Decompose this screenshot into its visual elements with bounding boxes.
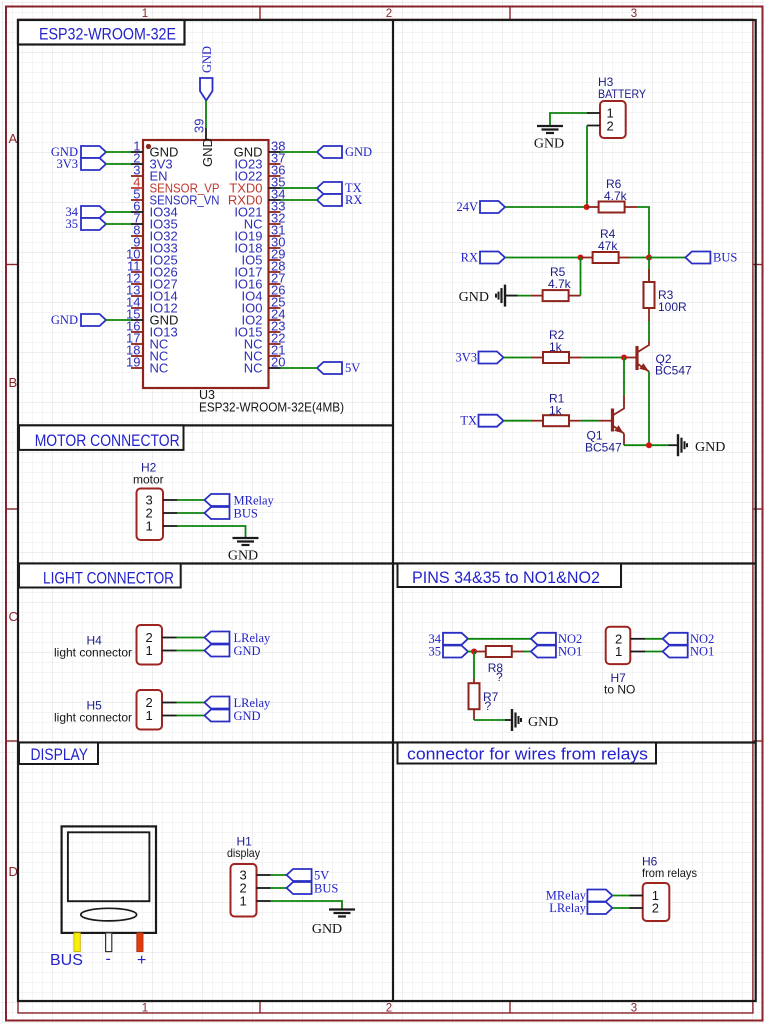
connector H3 BATTERY	[587, 75, 646, 138]
svg-text:GND: GND	[345, 145, 372, 159]
ground GND (battery)	[534, 126, 564, 152]
resistor R2 1k	[531, 328, 581, 363]
net port NO1	[531, 645, 582, 659]
net port NO1 (H7)	[663, 645, 715, 659]
svg-text:1: 1	[146, 643, 153, 658]
ground GND (emitters)	[669, 434, 726, 456]
svg-text:100R: 100R	[658, 300, 687, 314]
ground GND (H2)	[228, 538, 259, 564]
wire 34 to NO2	[468, 638, 531, 640]
svg-text:BUS: BUS	[50, 952, 83, 969]
svg-text:1k: 1k	[549, 404, 563, 418]
junction Q1/Q2 emitters	[646, 442, 652, 448]
power flag GND (top of U3)	[200, 46, 214, 101]
wire H5 pin1 to GND	[177, 715, 205, 717]
net port TX	[460, 414, 503, 428]
section title connector for wires from relays	[398, 743, 657, 764]
junction 24V/H3	[584, 204, 590, 210]
svg-text:1: 1	[146, 708, 153, 723]
wire LRelay to H6 pin2	[612, 907, 629, 909]
svg-text:light connector: light connector	[54, 646, 132, 660]
resistor R5 4.7k	[531, 265, 581, 301]
section title DISPLAY	[19, 743, 98, 765]
svg-text:GND: GND	[51, 313, 78, 327]
svg-text:GND: GND	[234, 644, 261, 658]
svg-text:GND: GND	[200, 46, 214, 73]
section title LIGHT CONNECTOR	[19, 564, 181, 588]
svg-text:2: 2	[652, 901, 659, 916]
wire pin39 to GND flag	[205, 101, 207, 129]
wire pin 38 to GND	[281, 151, 318, 153]
wire H1 pin3 to 5V	[271, 874, 287, 876]
svg-text:+: +	[137, 952, 146, 969]
svg-text:LRelay: LRelay	[234, 696, 272, 710]
svg-text:motor: motor	[133, 473, 164, 487]
connector H6 from relays	[629, 855, 697, 922]
wire MRelay to H6 pin1	[612, 895, 629, 897]
wire Q2 emitter down	[648, 372, 650, 446]
section title MOTOR CONNECTOR	[19, 425, 184, 450]
svg-text:MRelay: MRelay	[234, 494, 275, 508]
svg-text:1: 1	[142, 8, 148, 20]
net port NO2	[531, 632, 582, 646]
svg-text:4.7k: 4.7k	[604, 189, 628, 203]
transistor Q1 BC547	[585, 396, 624, 455]
svg-text:ESP32-WROOM-32E(4MB): ESP32-WROOM-32E(4MB)	[199, 401, 344, 415]
svg-text:to NO: to NO	[604, 683, 635, 697]
wire H5 pin2 to LRelay	[177, 702, 205, 704]
IC U3 ESP32-WROOM-32E(4MB)	[126, 119, 344, 415]
svg-text:GND: GND	[228, 549, 258, 564]
wire H2 pin3 to MRelay	[177, 499, 205, 501]
ground GND (H1)	[312, 910, 355, 938]
svg-text:NC: NC	[244, 361, 263, 376]
svg-text:TX: TX	[460, 414, 477, 428]
svg-text:24V: 24V	[456, 200, 478, 214]
connector H4 light connector	[54, 625, 177, 665]
section title PINS 34&35 to NO1&NO2	[398, 564, 622, 588]
net port 35	[429, 645, 469, 659]
svg-text:display: display	[227, 846, 260, 860]
net port LRelay (H6)	[549, 901, 612, 915]
transistor Q2 BC547	[624, 341, 692, 378]
svg-text:1k: 1k	[549, 340, 563, 354]
wire 3V3 to R2	[504, 357, 532, 359]
svg-text:BUS: BUS	[314, 882, 338, 896]
svg-text:from relays: from relays	[642, 866, 697, 880]
net port 24V	[456, 200, 505, 214]
wire R7 to GND	[474, 719, 512, 721]
net port MRelay (H2)	[205, 494, 275, 508]
svg-text:3: 3	[631, 1003, 637, 1015]
net port 34	[429, 632, 469, 646]
svg-text:BC547: BC547	[655, 364, 692, 378]
svg-text:light connector: light connector	[54, 711, 132, 725]
net port 5V (H1)	[287, 869, 330, 883]
junction 35/R8/R7	[471, 649, 477, 655]
net port 34 (U3 pin 6)	[66, 205, 107, 219]
wire R2 to Q2 base junction	[581, 357, 624, 359]
net port RX (U3 pin 34)	[317, 193, 362, 207]
wire pin 34 to RX	[281, 199, 318, 201]
connector H5 light connector	[54, 690, 177, 730]
svg-text:LRelay: LRelay	[234, 631, 272, 645]
wire RX to R4	[505, 257, 581, 259]
svg-text:RX: RX	[345, 193, 362, 207]
resistor R7 ?	[469, 679, 499, 720]
svg-text:PINS 34&35 to NO1&NO2: PINS 34&35 to NO1&NO2	[412, 568, 600, 587]
resistor R1 1k	[531, 392, 581, 427]
net port GND (H4)	[205, 644, 261, 658]
svg-text:1: 1	[146, 519, 153, 534]
svg-text:-: -	[106, 951, 111, 968]
svg-text:19: 19	[126, 355, 140, 370]
svg-text:BC547: BC547	[585, 441, 622, 455]
wire H1 pin2 to BUS	[271, 887, 287, 889]
svg-text:35: 35	[429, 645, 442, 659]
svg-text:DISPLAY: DISPLAY	[31, 745, 89, 764]
svg-text:?: ?	[485, 699, 492, 713]
svg-text:NO1: NO1	[558, 645, 582, 659]
wire H4 pin1 to GND	[177, 650, 205, 652]
wire R3 to Q2 collector	[648, 321, 650, 341]
wire 35 to pin 7	[106, 223, 131, 225]
svg-text:5V: 5V	[345, 361, 360, 375]
svg-text:GND: GND	[459, 290, 489, 305]
svg-text:NO1: NO1	[690, 645, 714, 659]
svg-text:BATTERY: BATTERY	[598, 87, 646, 101]
net port RX	[461, 251, 505, 265]
net port GND (U3 pin 1)	[51, 145, 106, 159]
svg-text:1: 1	[142, 1003, 148, 1015]
svg-text:2: 2	[386, 1003, 392, 1015]
net port 5V (U3 pin 20)	[317, 361, 360, 375]
svg-text:C: C	[9, 609, 18, 624]
ground GND (R7)	[512, 709, 558, 731]
svg-text:39: 39	[192, 119, 207, 133]
resistor R6 4.7k	[587, 177, 637, 213]
wire H1 pin1 to GND	[271, 901, 343, 910]
wire Q1 emitter to GND	[624, 444, 669, 446]
svg-text:4.7k: 4.7k	[548, 277, 572, 291]
svg-text:BUS: BUS	[713, 251, 737, 265]
ground GND (R5)	[459, 285, 505, 307]
svg-text:1: 1	[615, 644, 622, 659]
svg-text:B: B	[9, 375, 18, 390]
net port LRelay (H5)	[205, 696, 272, 710]
wire pin 20 to 5V	[281, 367, 318, 369]
svg-text:LRelay: LRelay	[549, 901, 587, 915]
display module graphic	[50, 826, 156, 969]
svg-text:A: A	[9, 131, 18, 146]
junction RX/R5	[578, 255, 584, 261]
svg-text:GND: GND	[534, 137, 564, 152]
svg-text:GND: GND	[312, 922, 342, 937]
connector H1 display	[227, 835, 271, 917]
net port TX (U3 pin 35)	[317, 181, 362, 195]
wire pin 35 to TX	[281, 187, 318, 189]
svg-text:GND: GND	[200, 138, 215, 167]
svg-text:NC: NC	[150, 361, 169, 376]
wire R6 to BUS node	[637, 207, 649, 258]
wire H2 pin1 to GND	[177, 526, 246, 538]
net port NO2 (H7)	[663, 632, 715, 646]
svg-text:LIGHT CONNECTOR: LIGHT CONNECTOR	[43, 569, 174, 588]
wire junction down to Q1 collector	[623, 358, 625, 396]
wire H7 pin1 to NO1	[645, 651, 663, 653]
svg-text:1: 1	[240, 894, 247, 909]
net port BUS	[685, 251, 737, 265]
resistor R4 47k	[581, 227, 631, 263]
wire R4 to BUS junction	[630, 257, 649, 259]
svg-text:RX: RX	[461, 251, 478, 265]
svg-text:2: 2	[386, 8, 392, 20]
wire 24V to R6	[505, 206, 587, 208]
svg-text:35: 35	[66, 217, 79, 231]
wire 34 to pin 6	[106, 211, 131, 213]
net port MRelay (H6)	[546, 889, 613, 903]
svg-text:3V3: 3V3	[56, 157, 78, 171]
resistor R8 ?	[474, 646, 524, 684]
net port 35 (U3 pin 7)	[66, 217, 107, 231]
resistor R3 100R	[644, 258, 688, 322]
wire H3 pin2 to 24V net	[586, 126, 588, 208]
svg-text:BUS: BUS	[234, 507, 258, 521]
section title ESP32-WROOM-32E	[18, 20, 185, 45]
wire 35 to junction	[468, 651, 474, 653]
wire R1 to Q1 base	[581, 420, 599, 422]
net port GND (U3 pin 38)	[317, 145, 372, 159]
wire H4 pin2 to LRelay	[177, 637, 205, 639]
svg-text:D: D	[9, 864, 18, 879]
junction Q2 base / Q1 collector	[621, 355, 627, 361]
svg-text:GND: GND	[528, 715, 558, 730]
svg-text:?: ?	[496, 670, 503, 684]
wire H7 pin2 to NO2	[645, 638, 663, 640]
net port 3V3	[455, 351, 503, 365]
net port 3V3 (U3 pin 2)	[56, 157, 106, 171]
wire R8 to NO1	[524, 651, 531, 653]
svg-text:ESP32-WROOM-32E: ESP32-WROOM-32E	[39, 25, 176, 44]
net port BUS (H2)	[205, 507, 258, 521]
wire H2 pin2 to BUS	[177, 512, 205, 514]
connector H2 motor	[133, 461, 177, 541]
net port LRelay (H4)	[205, 631, 272, 645]
svg-text:connector for wires from relay: connector for wires from relays	[407, 745, 648, 764]
wire GND to pin 15	[106, 319, 131, 321]
wire 3V3 to pin 2	[106, 163, 131, 165]
net port GND (H5)	[205, 709, 261, 723]
svg-text:MOTOR CONNECTOR: MOTOR CONNECTOR	[35, 431, 180, 450]
wire BUS junction to BUS port	[649, 257, 685, 259]
junction BUS node	[646, 255, 652, 261]
wire R5 to RX junction	[580, 258, 582, 296]
svg-text:3: 3	[631, 8, 637, 20]
wire TX to R1	[504, 420, 532, 422]
connector H7 to NO	[604, 627, 645, 697]
svg-text:GND: GND	[695, 440, 725, 455]
wire junction to R7	[473, 652, 475, 680]
wire GND to R5	[505, 295, 531, 297]
net port GND (U3 pin 15)	[51, 313, 106, 327]
svg-text:47k: 47k	[598, 239, 618, 253]
svg-text:3V3: 3V3	[455, 351, 477, 365]
svg-text:2: 2	[607, 119, 614, 134]
svg-text:GND: GND	[234, 709, 261, 723]
net port BUS (H1)	[287, 882, 339, 896]
wire GND to pin 1	[106, 151, 131, 153]
svg-text:5V: 5V	[314, 869, 329, 883]
wire H3 pin1 to GND	[550, 113, 587, 126]
